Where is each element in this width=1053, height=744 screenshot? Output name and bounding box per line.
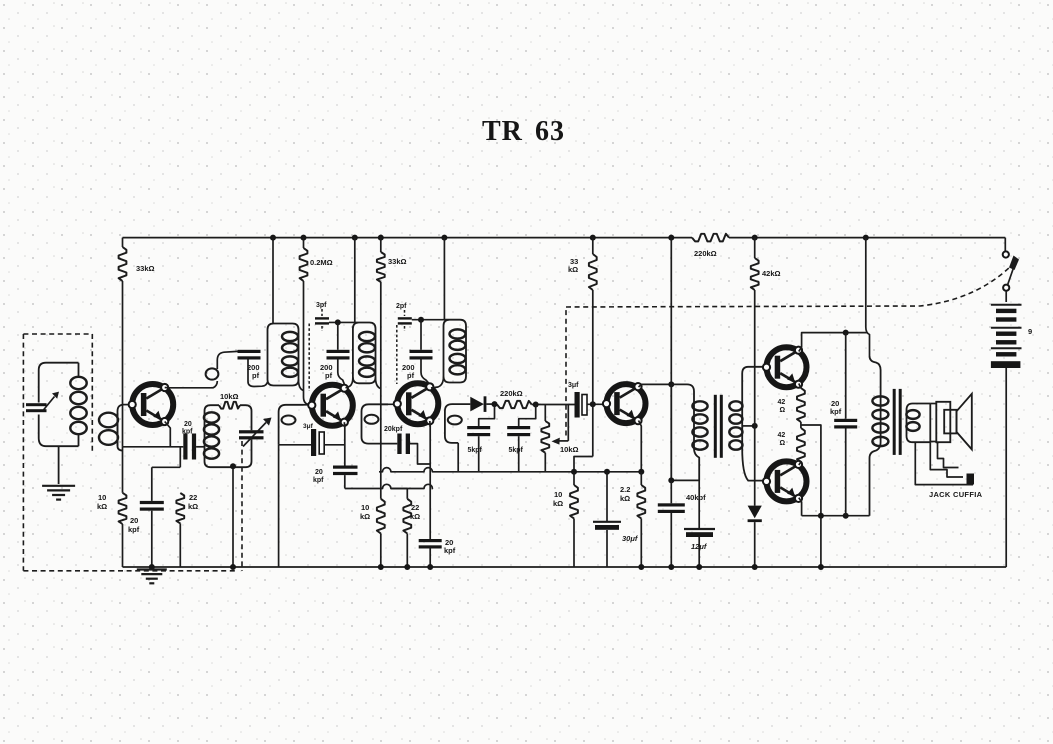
wire Q1 base bias line down: [122, 405, 124, 447]
wire T4 center tap: [742, 425, 755, 427]
wire bias rail: [345, 484, 433, 488]
coil Q3 input loop: [362, 404, 389, 443]
coil Q2 input loop: [279, 405, 304, 445]
capacitor C7 20kpf emitter bypass: [333, 466, 358, 469]
svg-text:pf: pf: [325, 371, 333, 380]
svg-text:63: 63: [535, 116, 565, 147]
dashed gang link oscillator tuning: [241, 441, 243, 571]
resistor R16 42 ohm: [797, 388, 805, 422]
wire jack tap 1: [930, 442, 963, 477]
wire AGC rail: [379, 468, 641, 472]
output transformer T5 secondary: [907, 404, 931, 443]
wire Q5 collector line: [799, 333, 868, 352]
wire T3 feed from bus: [441, 235, 447, 241]
wire T1 secondary to Q2 base: [299, 380, 304, 391]
wire Q2 loop bottom: [279, 444, 311, 446]
svg-text:3pf: 3pf: [316, 302, 327, 309]
jack plug: [967, 474, 975, 485]
wire Q1 base lead: [123, 404, 133, 406]
svg-text:20kpf: 20kpf: [384, 426, 403, 433]
wire T2 feed from bus: [352, 235, 358, 241]
wire Q3 emitter drop: [429, 421, 431, 427]
wire D1 output: [486, 403, 497, 405]
capacitor C3 20kpf emitter bypass: [151, 467, 153, 501]
node oscillator tank bottom: [230, 463, 236, 469]
svg-text:10kΩ: 10kΩ: [560, 445, 579, 454]
svg-text:kΩ: kΩ: [97, 502, 107, 511]
svg-text:30μf: 30μf: [622, 534, 639, 543]
wire rail to ground bus: [820, 516, 822, 567]
speaker LS1 frame: [936, 402, 950, 442]
oscillator coil L3 turns: [204, 412, 219, 422]
wire C15 to Q4 base: [587, 403, 607, 405]
capacitor C17 40kpf: [670, 480, 672, 503]
svg-text:42: 42: [778, 432, 786, 439]
driver transformer T4 secondary: [742, 367, 766, 481]
wire detector loop to AGC rail: [457, 443, 459, 472]
battery B1 9V: [1005, 291, 1007, 302]
svg-text:2.2: 2.2: [620, 485, 630, 494]
antenna coil L1 turns: [78, 363, 80, 377]
IF transformer T1 turns: [282, 332, 298, 341]
wire C4 to T1 bottom: [248, 360, 268, 387]
wire T1 feed from bus: [270, 235, 276, 241]
wire R17 to Q6 collector: [799, 462, 801, 465]
svg-text:kΩ: kΩ: [360, 512, 370, 521]
wire Q2 loop to ground bus: [278, 445, 280, 567]
resistor R7 10k ohm: [377, 499, 385, 534]
resistor R5 0.2M ohm: [301, 235, 307, 241]
svg-text:kpf: kpf: [182, 429, 193, 436]
svg-text:5kpf: 5kpf: [509, 447, 524, 454]
svg-text:42: 42: [778, 399, 786, 406]
capacitor C6 3uf: [311, 429, 316, 456]
resistor R13 2.2k ohm: [637, 485, 645, 519]
IF transformer T1 loop: [268, 324, 299, 386]
wire battery to ground bus: [1005, 368, 1007, 567]
wiper arrow R10: [555, 440, 569, 442]
dashed link volume to switch: [565, 307, 567, 436]
resistor R15 42k ohm: [752, 235, 758, 241]
transistor Q3 2nd IF amplifier: [394, 383, 439, 424]
wire tank to ground bus: [232, 467, 234, 567]
wire Q5 emitter: [799, 384, 801, 389]
node R16/R17: [800, 422, 802, 428]
wire output bottom rail: [802, 515, 870, 517]
transistor Q1 converter: [129, 384, 174, 425]
IF transformer T3 loop: [444, 320, 467, 383]
wire jack return: [915, 442, 973, 484]
capacitor C12 200pf: [410, 350, 433, 353]
svg-text:5kpf: 5kpf: [468, 447, 483, 454]
svg-text:20: 20: [130, 516, 138, 525]
svg-text:JACK CUFFIA: JACK CUFFIA: [929, 490, 983, 499]
wire T3 bottom to Q3 collector: [431, 377, 444, 389]
svg-text:220kΩ: 220kΩ: [500, 389, 523, 398]
output transformer T5 primary: [870, 356, 881, 516]
potentiometer R10 10k volume: [541, 421, 549, 453]
capacitor C16 30uf electrolytic: [604, 469, 610, 475]
svg-text:2pf: 2pf: [396, 303, 407, 310]
variable capacitor CV1 antenna tuning: [26, 403, 47, 406]
svg-text:33kΩ: 33kΩ: [388, 257, 407, 266]
svg-text:10: 10: [554, 490, 562, 499]
wire Q4 emitter drop: [639, 421, 642, 472]
svg-text:3μf: 3μf: [568, 382, 579, 389]
svg-text:10: 10: [361, 503, 369, 512]
ground antenna: [42, 486, 75, 500]
IF transformer T2 turns: [359, 332, 375, 341]
wire Q1 collector to T1 primary: [165, 381, 218, 388]
wire wiper riser: [567, 405, 569, 441]
wire C9 to emitter node: [410, 444, 430, 464]
svg-text:Ω: Ω: [780, 407, 786, 414]
svg-text:kΩ: kΩ: [620, 494, 630, 503]
wire Q3 loop bottom: [369, 443, 398, 445]
resistor R1 33k ohm: [122, 238, 124, 247]
wire R9 to volume pot: [532, 404, 575, 406]
coil detector secondary loop: [445, 404, 470, 443]
arrow CV1: [43, 397, 55, 411]
capacitor C13 5kpf: [479, 404, 495, 426]
wire jack tap 2: [938, 442, 959, 467]
antenna coil L1 loop: [39, 363, 79, 447]
core T4: [714, 395, 717, 458]
wire C5 to T2 top node: [329, 321, 355, 323]
wire C8 bottom to Q2 collector: [338, 360, 345, 385]
svg-text:10: 10: [98, 493, 106, 502]
svg-text:20: 20: [184, 421, 192, 428]
transistor Q4 audio driver: [603, 383, 646, 424]
arrow CV2: [243, 423, 266, 447]
diode D1 detector: [470, 397, 484, 412]
wire C12 bottom to Q3 collector: [421, 360, 430, 385]
svg-text:0.2MΩ: 0.2MΩ: [310, 258, 333, 267]
wire bus to switch: [1004, 238, 1006, 252]
IF transformer T3 turns: [450, 329, 466, 338]
wire bottom ground bus: [123, 566, 1007, 568]
speaker LS1: [944, 410, 956, 434]
diode D2 bias: [748, 506, 762, 519]
resistor R6 33k ohm: [378, 235, 384, 241]
node C8 top: [335, 319, 341, 325]
resistor R9 220k ohm: [497, 401, 532, 408]
resistor R2 10k ohm: [119, 493, 127, 524]
dashed lead C5: [308, 324, 310, 392]
svg-text:220kΩ: 220kΩ: [694, 249, 717, 258]
wire C12 top link: [420, 320, 422, 350]
wire T4 feed from bus: [668, 235, 674, 241]
ground main: [149, 564, 155, 570]
wire C8 top link: [337, 322, 339, 349]
svg-text:kΩ: kΩ: [553, 499, 563, 508]
svg-text:22: 22: [189, 493, 197, 502]
svg-text:kΩ: kΩ: [410, 512, 420, 521]
resistor R12 10k ohm: [570, 485, 578, 519]
coil T1 primary turn: [206, 368, 219, 379]
dashed coupling line ferrite rod: [91, 334, 93, 452]
capacitor C14 5kpf: [519, 405, 536, 427]
svg-text:12μf: 12μf: [691, 542, 708, 551]
svg-text:10kΩ: 10kΩ: [220, 392, 239, 401]
driver transformer T4 primary: [671, 384, 699, 480]
dashed lead C11: [396, 325, 398, 384]
resistor R4 10k ohm oscillator: [219, 402, 240, 409]
variable capacitor CV2 oscillator: [239, 430, 264, 433]
svg-text:Ω: Ω: [780, 440, 786, 447]
svg-text:9: 9: [1028, 327, 1032, 336]
resistor R8 22k ohm: [403, 499, 411, 534]
wire antenna loop to ground: [58, 446, 60, 484]
svg-text:pf: pf: [407, 371, 415, 380]
coil L2 base winding: [118, 405, 123, 451]
svg-text:20: 20: [315, 469, 323, 476]
wire emitter node drop: [179, 447, 181, 468]
wire C2 to oscillator coil tap: [196, 446, 204, 448]
core T5: [893, 389, 896, 455]
svg-text:kΩ: kΩ: [188, 502, 198, 511]
switch S1: [1003, 251, 1009, 257]
wire T5 feed from bus: [863, 235, 869, 241]
svg-text:TR: TR: [482, 116, 523, 147]
svg-text:3μf: 3μf: [303, 423, 314, 430]
dashed enclosure antenna/tuning gang: [22, 334, 24, 571]
svg-text:pf: pf: [252, 371, 260, 380]
svg-text:kpf: kpf: [444, 546, 456, 555]
capacitor C10 20kpf: [419, 539, 442, 542]
resistor R11 33k ohm: [590, 235, 596, 241]
node C12 top: [418, 317, 424, 323]
svg-text:42kΩ: 42kΩ: [762, 269, 781, 278]
svg-text:kpf: kpf: [313, 477, 324, 484]
transistor Q5 output: [763, 347, 807, 388]
capacitor C4 200pf: [238, 350, 261, 353]
transistor Q6 output: [763, 461, 807, 502]
wire R11 elbow to AGC rail: [574, 457, 593, 472]
IF transformer T2 loop: [353, 323, 376, 384]
wire top supply bus: [123, 237, 693, 239]
svg-text:kpf: kpf: [830, 407, 842, 416]
wire T2 bottom to Q2 collector: [346, 377, 353, 388]
svg-text:22: 22: [411, 503, 419, 512]
wire T5 to speaker: [930, 403, 936, 405]
resistor R3 22k ohm: [176, 493, 184, 523]
svg-text:kpf: kpf: [128, 525, 140, 534]
wire R6 line to lower divider: [380, 404, 382, 499]
wire C11 to T3 top node: [412, 319, 445, 321]
capacitor C2 20kpf series: [183, 434, 187, 460]
oscillator coil L3 loop: [205, 405, 252, 467]
wire Q1 emitter to node: [165, 422, 171, 447]
wire output mid tap: [801, 425, 821, 516]
capacitor C8 200pf: [327, 350, 350, 353]
capacitor C18 12uf electrolytic: [698, 480, 700, 529]
wire Q2 emitter drop: [343, 422, 346, 427]
resistor R17 42 ohm: [797, 428, 805, 462]
capacitor C9 20kpf series: [397, 434, 401, 455]
wire emitter line: [123, 446, 184, 448]
svg-text:33kΩ: 33kΩ: [136, 264, 155, 273]
wire T2 secondary to Q3 base: [376, 377, 381, 388]
wire C6 to emitter node: [324, 444, 345, 446]
capacitor C19 20kpf output: [845, 333, 847, 419]
svg-text:40kpf: 40kpf: [686, 493, 706, 502]
svg-text:kΩ: kΩ: [568, 265, 578, 274]
capacitor C15 3uf coupling: [575, 392, 580, 418]
wire Q4 collector to T4: [639, 384, 672, 387]
resistor R14 220k ohm supply: [692, 234, 729, 242]
wire Q6 emitter to rail: [799, 498, 802, 516]
transistor Q2 1st IF amplifier: [308, 385, 353, 426]
